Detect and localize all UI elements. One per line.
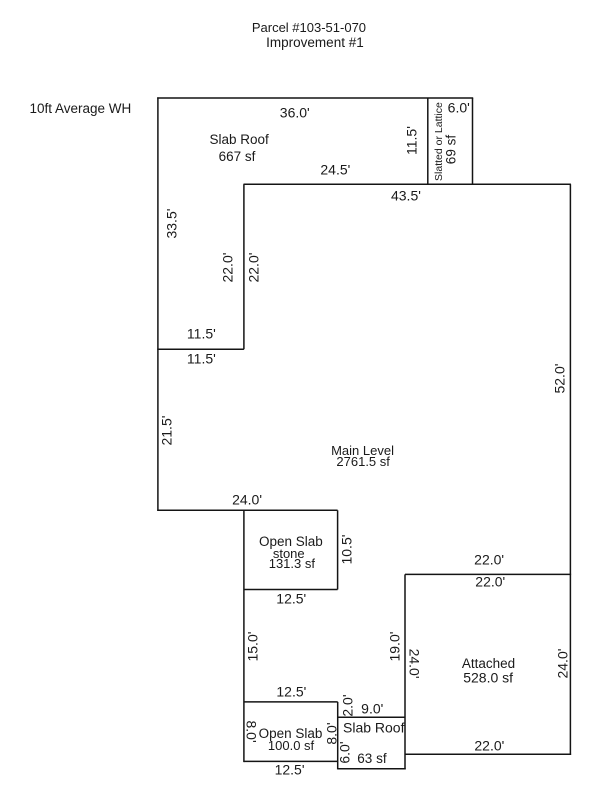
wall: vertical x=244 stone left + 15.0 + open slab left bbox=[243, 510, 245, 762]
dim 8.0 vertical left bbox=[245, 720, 259, 742]
dim 11.5 below step bbox=[187, 352, 216, 366]
dim 24.0 horizontal bbox=[232, 493, 262, 507]
area: open slab stone line1 bbox=[259, 535, 323, 549]
wall: attached left edge + slab roof right bbox=[404, 574, 406, 769]
wall: main level top edge bbox=[244, 183, 571, 185]
area: slab roof bottom sf bbox=[357, 752, 386, 766]
dim 15.0 vertical bbox=[245, 631, 259, 661]
dim 10.5 vertical bbox=[339, 535, 353, 565]
wall: open slab right + slab roof left bbox=[337, 702, 339, 770]
wall: attached bottom edge bbox=[405, 753, 571, 755]
wall: lattice left edge bbox=[427, 98, 429, 185]
dim 36.0 top bbox=[280, 106, 310, 120]
dim 22.0 below attached top bbox=[475, 575, 505, 589]
area: lattice sf vertical bbox=[444, 135, 458, 164]
area: open slab stone sf bbox=[269, 557, 315, 570]
dim 8.0 vertical right bbox=[324, 722, 338, 744]
wall: open slab bottom edge bbox=[244, 760, 338, 762]
area: slab roof bottom name bbox=[343, 720, 404, 734]
dim 12.5 below open slab bbox=[275, 763, 305, 777]
wall: step 11.5 horizontal bbox=[157, 348, 244, 350]
wall: top edge of Slab Roof area bbox=[157, 97, 473, 99]
dim 12.5 below stone bbox=[276, 591, 306, 605]
wall: open slab top edge bbox=[244, 701, 338, 703]
area: open slab stone line2 bbox=[273, 547, 305, 560]
dim 22.0 above attached top bbox=[474, 553, 504, 567]
area: main level name bbox=[331, 444, 394, 457]
area: attached name bbox=[462, 657, 515, 671]
dim 22.0 vertical right bbox=[246, 253, 260, 283]
area: lattice name vertical bbox=[434, 102, 445, 181]
wall: inner vertical 22.0 bbox=[243, 184, 245, 349]
dim 43.5 bbox=[391, 188, 421, 202]
area: attached sf bbox=[463, 670, 513, 684]
wall: left edge (Slab Roof + Main Level) bbox=[157, 97, 159, 511]
title: parcel number bbox=[252, 21, 366, 34]
dim 22.0 attached bottom bbox=[474, 739, 504, 753]
dim 24.0 vertical attached left bbox=[407, 648, 421, 678]
wall: right edge (Main Level + Attached) bbox=[569, 184, 571, 755]
dim 19.0 vertical bbox=[387, 631, 401, 661]
dim 11.5 vertical bbox=[404, 126, 418, 155]
wall: 24.0 bottom-left horizontal + stone top bbox=[157, 509, 337, 511]
wall: stone right edge bbox=[337, 510, 339, 589]
dim 24.5 bbox=[320, 162, 350, 176]
wall: slab roof bottom edge bbox=[338, 768, 406, 770]
label: wall height note bbox=[29, 101, 131, 115]
dim 6.0 vertical bottom bbox=[338, 742, 352, 764]
dim 52.0 vertical bbox=[552, 364, 566, 394]
area: open slab sf bbox=[268, 739, 314, 752]
dim 33.5 vertical bbox=[164, 209, 178, 239]
wall: lattice right edge bbox=[472, 98, 474, 185]
dim 6.0 lattice top bbox=[448, 101, 470, 115]
wall: slab roof top edge 9.0 bbox=[338, 716, 405, 718]
dim 21.5 vertical bbox=[159, 416, 173, 446]
wall: attached top edge bbox=[405, 573, 571, 575]
dim 12.5 above open slab bbox=[276, 685, 306, 699]
dim 22.0 vertical left bbox=[220, 253, 234, 283]
dim 24.0 vertical attached right bbox=[556, 648, 570, 678]
area: open slab name bbox=[259, 727, 323, 741]
dim 9.0 bbox=[361, 701, 383, 715]
dim 2.0 vertical bbox=[340, 694, 354, 716]
dim 11.5 above step bbox=[187, 327, 216, 341]
area: slab roof name bbox=[209, 133, 268, 147]
title: improvement bbox=[266, 36, 364, 50]
wall: stone bottom edge bbox=[244, 589, 338, 591]
area: main level sf bbox=[336, 455, 390, 468]
area: slab roof sf bbox=[219, 150, 256, 164]
